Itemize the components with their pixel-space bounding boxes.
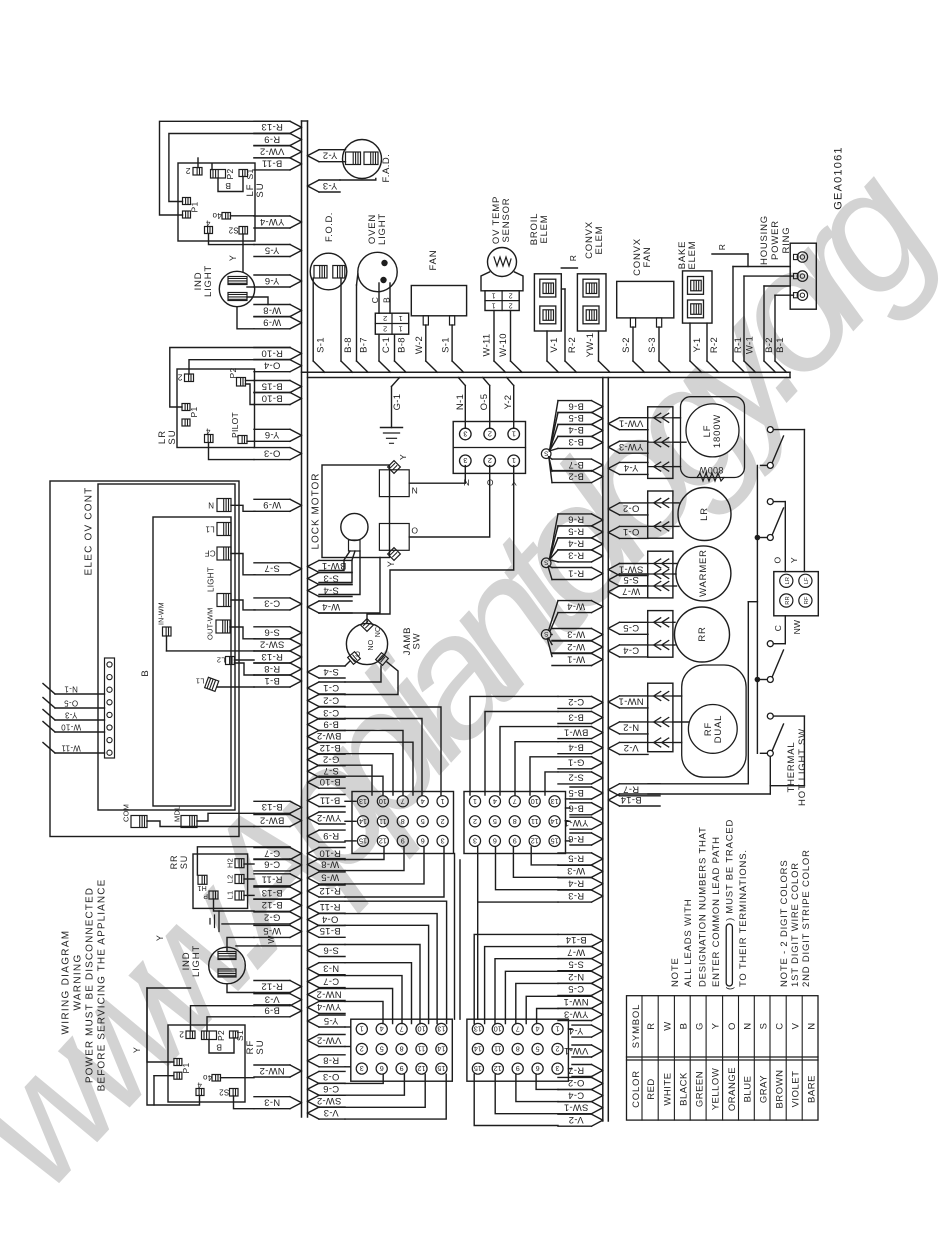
wire YW-3 route bbox=[537, 1009, 558, 1024]
svg-text:R-5: R-5 bbox=[568, 526, 584, 537]
flag SW-2 bbox=[254, 638, 290, 640]
svg-text:W-5: W-5 bbox=[263, 925, 281, 936]
flag VW-1 br bbox=[572, 1044, 592, 1046]
wire C-2 route bbox=[470, 696, 558, 795]
svg-text:S: S bbox=[544, 450, 549, 457]
flag G-1 mr bbox=[558, 756, 592, 758]
terminal P1 of LR SU bbox=[182, 404, 190, 411]
wire N-1 from bus bbox=[458, 378, 465, 386]
svg-text:B-13: B-13 bbox=[261, 887, 282, 898]
flag B-15 bbox=[254, 380, 290, 382]
connector block bottom-right bbox=[467, 1019, 569, 1081]
svg-text:LIGHT: LIGHT bbox=[377, 213, 388, 245]
connector strip 8 circles bbox=[105, 658, 115, 758]
terminal 2 of RF SU bbox=[186, 1031, 195, 1039]
wire Y rail lower to B-14 junction bbox=[773, 715, 804, 717]
terminal 4o of LF SU bbox=[222, 213, 231, 220]
wire Y loop route bbox=[147, 988, 191, 1062]
svg-text:V-3: V-3 bbox=[264, 994, 279, 1005]
svg-text:V-3: V-3 bbox=[323, 1107, 338, 1118]
svg-text:SU: SU bbox=[255, 182, 266, 197]
svg-text:S-2: S-2 bbox=[568, 772, 584, 783]
flag S-7 mid bbox=[319, 764, 345, 766]
svg-text:L2: L2 bbox=[226, 875, 235, 884]
wire VW-1 into block bbox=[568, 1048, 572, 1050]
svg-text:F.O.D.: F.O.D. bbox=[324, 212, 335, 242]
wire V-3 to terminal 2 bbox=[191, 1006, 255, 1031]
svg-text:VW-1: VW-1 bbox=[564, 1045, 589, 1056]
svg-text:8: 8 bbox=[401, 817, 405, 826]
wire S-2 route bbox=[545, 772, 558, 795]
terminal COM bbox=[131, 816, 147, 828]
svg-text:L1: L1 bbox=[196, 677, 205, 686]
svg-text:R-13: R-13 bbox=[261, 651, 283, 662]
wire W-8 from IND LIGHT bbox=[247, 297, 268, 305]
wire C from OVEN LIGHT to block bbox=[378, 283, 380, 313]
wire S-1 from FAN bbox=[451, 325, 453, 361]
svg-text:BARE: BARE bbox=[806, 1075, 817, 1103]
flag YW-4 bbox=[254, 215, 290, 217]
splice S of W group bbox=[541, 630, 551, 640]
wire L1 to B-1 flag bbox=[217, 686, 254, 688]
svg-text:1: 1 bbox=[491, 301, 495, 308]
wire B-12 route bbox=[345, 742, 413, 795]
wire BW-2 route pin 7 bbox=[345, 730, 403, 795]
connector box LR bbox=[648, 491, 673, 538]
svg-text:R-10: R-10 bbox=[319, 847, 341, 858]
flag B-10 mid bbox=[319, 775, 345, 777]
svg-text:N-1: N-1 bbox=[64, 684, 78, 693]
flag YW-2 mid bbox=[319, 811, 345, 813]
wire BW-1 route bbox=[500, 727, 558, 795]
indicator box NW bbox=[774, 572, 819, 616]
motor CONVX FAN box bbox=[617, 281, 674, 318]
terminal 4o of RF SU bbox=[212, 1075, 221, 1082]
svg-text:P1: P1 bbox=[189, 407, 199, 418]
svg-text:B-2: B-2 bbox=[568, 470, 584, 481]
svg-text:Y-2: Y-2 bbox=[503, 395, 514, 410]
svg-text:C-4: C-4 bbox=[568, 1089, 584, 1100]
flag R-4 bbox=[558, 537, 592, 539]
svg-text:ELEM: ELEM bbox=[687, 240, 698, 269]
flag R-3 mr bbox=[558, 889, 592, 891]
svg-text:IN-WM: IN-WM bbox=[158, 602, 165, 625]
disc F.A.D. bbox=[343, 140, 382, 179]
svg-text:W-10: W-10 bbox=[498, 333, 509, 357]
connector box WARMER bbox=[648, 551, 673, 598]
svg-text:BW-1: BW-1 bbox=[322, 560, 347, 571]
svg-text:B-10: B-10 bbox=[261, 392, 282, 403]
wire N-3 route bbox=[345, 963, 412, 1024]
svg-text:13: 13 bbox=[474, 1025, 482, 1034]
svg-text:HOT LIGHT SW: HOT LIGHT SW bbox=[797, 728, 808, 806]
wire R-12 from IND LIGHT bbox=[227, 984, 254, 993]
svg-text:W-2: W-2 bbox=[414, 336, 425, 354]
wire NW-2 from 4o bbox=[221, 1077, 255, 1079]
svg-text:C-4: C-4 bbox=[623, 645, 639, 656]
svg-text:P2: P2 bbox=[225, 169, 235, 180]
svg-text:BW-2: BW-2 bbox=[260, 814, 285, 825]
terminal S2 of RF SU bbox=[230, 1089, 239, 1097]
wire P2 to B-15 B-10 flags bbox=[246, 380, 255, 382]
flag W-3 w bbox=[552, 628, 592, 630]
svg-text:G-1: G-1 bbox=[568, 757, 585, 768]
wire Y-4 into block bbox=[568, 1028, 572, 1030]
svg-text:BLUE: BLUE bbox=[743, 1076, 754, 1103]
flag N-3 bl bbox=[319, 962, 345, 964]
flag N-2 rf bbox=[620, 721, 649, 723]
flag R-4 mr bbox=[558, 877, 592, 879]
svg-text:S-7: S-7 bbox=[323, 765, 339, 776]
control inner box bbox=[98, 484, 235, 810]
wire R-12 under-route bbox=[345, 847, 444, 897]
svg-text:N-2: N-2 bbox=[623, 722, 639, 733]
connector box LF bbox=[648, 407, 673, 479]
wire W-8 under-route bbox=[345, 847, 404, 871]
svg-text:NW-2: NW-2 bbox=[259, 1065, 284, 1076]
svg-text:RR: RR bbox=[697, 626, 708, 641]
svg-text:2: 2 bbox=[556, 1045, 560, 1054]
svg-text:9: 9 bbox=[513, 837, 517, 846]
wire channel right bus bbox=[602, 378, 604, 1122]
svg-text:8: 8 bbox=[400, 1045, 404, 1054]
wire 4 to S2 junction bbox=[209, 234, 244, 245]
wire NW-2 route bbox=[345, 989, 393, 1024]
wire Y-5 into block bbox=[345, 1026, 351, 1028]
wire R-11 route bbox=[345, 901, 447, 1023]
svg-text:R-12: R-12 bbox=[319, 885, 341, 896]
flag S-4 bbox=[319, 584, 352, 586]
wire C-1 from block bbox=[378, 334, 380, 361]
svg-text:WARMER: WARMER bbox=[698, 549, 709, 597]
svg-text:BEFORE SERVICING THE APPLIANCE: BEFORE SERVICING THE APPLIANCE bbox=[96, 879, 107, 1092]
wire O-5 from bus bbox=[483, 378, 490, 386]
svg-text:SW-1: SW-1 bbox=[619, 563, 644, 574]
svg-text:R: R bbox=[717, 244, 727, 250]
svg-text:4: 4 bbox=[493, 797, 497, 806]
svg-text:P1: P1 bbox=[181, 1063, 191, 1074]
flag B-5 mr bbox=[570, 786, 592, 788]
flag C-2 jamb bbox=[319, 694, 345, 696]
svg-text:S-5: S-5 bbox=[568, 959, 584, 970]
svg-text:H1: H1 bbox=[197, 884, 207, 891]
svg-text:10: 10 bbox=[379, 797, 387, 806]
svg-text:O: O bbox=[772, 556, 782, 563]
flag S-4 jamb bbox=[319, 665, 345, 667]
flag R-7 br bbox=[572, 1064, 592, 1066]
svg-text:W-3: W-3 bbox=[567, 628, 585, 639]
wire W-10 from sensor bbox=[510, 311, 512, 362]
flag R-6 bbox=[558, 513, 592, 515]
wire O-2 under bbox=[536, 1074, 558, 1089]
wires gap verticals between blocks bbox=[454, 854, 456, 1020]
flag R-10 mid bbox=[319, 847, 345, 849]
svg-text:W-7: W-7 bbox=[567, 946, 585, 957]
svg-text:O-3: O-3 bbox=[323, 1071, 340, 1082]
svg-text:R-11: R-11 bbox=[319, 901, 340, 912]
wire C-6 under bbox=[345, 1074, 404, 1095]
svg-text:PILOT: PILOT bbox=[230, 412, 240, 438]
svg-text:10: 10 bbox=[494, 1025, 502, 1034]
svg-text:R: R bbox=[646, 1022, 657, 1029]
flag W-9 elec bbox=[254, 498, 290, 500]
svg-text:B-7: B-7 bbox=[359, 337, 370, 353]
svg-text:S-4: S-4 bbox=[323, 666, 339, 677]
svg-text:BW-1: BW-1 bbox=[564, 726, 589, 737]
wire G-2 route bbox=[345, 754, 393, 795]
terminal P of RR SU bbox=[209, 891, 218, 899]
svg-text:14: 14 bbox=[474, 1045, 482, 1054]
svg-text:O-4: O-4 bbox=[322, 913, 339, 924]
svg-text:ELEM: ELEM bbox=[539, 214, 550, 243]
indicator light IND LIGHT bbox=[219, 271, 254, 306]
terminal MDL bbox=[181, 816, 197, 828]
wire C-3 route to mid-left block pin 1 bbox=[345, 707, 441, 795]
svg-text:3: 3 bbox=[463, 456, 467, 465]
flag W-8 bbox=[254, 304, 290, 306]
svg-text:S-6: S-6 bbox=[264, 627, 280, 638]
wire lock motor leads bbox=[319, 551, 350, 570]
element RF DUAL burner bbox=[682, 665, 746, 777]
wire NW-1 route bbox=[526, 996, 558, 1023]
wire W from IND LIGHT bbox=[236, 945, 302, 947]
svg-text:YW-2: YW-2 bbox=[317, 812, 342, 823]
svg-text:S-5: S-5 bbox=[623, 574, 639, 585]
svg-text:C-7: C-7 bbox=[323, 975, 339, 986]
svg-text:Y-2: Y-2 bbox=[323, 150, 338, 161]
connector P2 of LF SU bbox=[211, 170, 226, 179]
control ELEC OV CONT outer box bbox=[50, 481, 239, 837]
svg-text:10: 10 bbox=[418, 1025, 426, 1034]
indicator light IND LIGHT lower bbox=[209, 947, 246, 984]
svg-text:R-12: R-12 bbox=[261, 980, 283, 991]
flag NW-2 bbox=[254, 1064, 290, 1066]
flag C-1 jamb bbox=[319, 681, 345, 683]
svg-text:SW-2: SW-2 bbox=[260, 639, 285, 650]
svg-text:W-9: W-9 bbox=[263, 499, 281, 510]
svg-text:O-4: O-4 bbox=[264, 360, 281, 371]
svg-text:2: 2 bbox=[441, 817, 445, 826]
svg-text:O-2: O-2 bbox=[568, 1077, 585, 1088]
disc F.O.D. bbox=[310, 253, 347, 290]
flag VW-1 lf bbox=[620, 417, 649, 419]
svg-text:W-7: W-7 bbox=[622, 586, 640, 597]
terminal L2 bbox=[226, 657, 235, 665]
svg-text:3: 3 bbox=[463, 429, 467, 438]
svg-text:P1: P1 bbox=[189, 202, 199, 213]
svg-text:W-10: W-10 bbox=[61, 722, 81, 731]
motor FAN box bbox=[411, 286, 466, 316]
svg-text:9: 9 bbox=[516, 1064, 520, 1073]
flag B-11 bbox=[254, 157, 290, 159]
wire C-3 from LIGHT bbox=[231, 600, 255, 610]
svg-text:N: N bbox=[743, 1022, 754, 1029]
svg-text:SU: SU bbox=[255, 1039, 266, 1054]
svg-text:Y-4: Y-4 bbox=[624, 462, 639, 473]
wire N-3 from S2 bbox=[234, 1096, 255, 1109]
svg-text:11: 11 bbox=[494, 1045, 501, 1054]
svg-text:W-11: W-11 bbox=[61, 743, 81, 752]
svg-text:B-8: B-8 bbox=[397, 337, 408, 353]
wire B-2 to housing bbox=[763, 286, 765, 361]
svg-text:15: 15 bbox=[359, 837, 367, 846]
wire R-5 under bbox=[531, 847, 558, 865]
svg-text:ALL LEADS WITH: ALL LEADS WITH bbox=[683, 899, 694, 987]
svg-text:2ND DIGIT STRIPE COLOR: 2ND DIGIT STRIPE COLOR bbox=[801, 849, 812, 987]
lock motor terminal N bbox=[379, 470, 409, 497]
flag S-5 br bbox=[558, 958, 592, 960]
svg-text:COM: COM bbox=[122, 804, 131, 822]
svg-text:ORANGE: ORANGE bbox=[727, 1067, 738, 1111]
svg-text:1: 1 bbox=[398, 324, 402, 333]
connector block bottom-left bbox=[351, 1019, 453, 1081]
svg-text:R-3: R-3 bbox=[568, 890, 584, 901]
svg-text:NOTE - 2 DIGIT COLORS: NOTE - 2 DIGIT COLORS bbox=[779, 860, 790, 987]
svg-text:P2: P2 bbox=[216, 1030, 226, 1041]
flag R-1 bbox=[552, 567, 592, 569]
svg-text:2: 2 bbox=[360, 1045, 364, 1054]
wire B-3 route bbox=[485, 712, 558, 796]
wires LR box to burner bbox=[673, 502, 679, 504]
svg-text:R-2: R-2 bbox=[709, 337, 720, 353]
element CONVX ELEM bbox=[577, 274, 606, 331]
wire W-2 from FAN bbox=[425, 325, 427, 361]
flag R-13 lower bbox=[254, 650, 290, 652]
wire H2 to C-6 bbox=[244, 863, 254, 865]
flag B-9 bbox=[254, 1004, 290, 1006]
wire C-1 to jamb bbox=[345, 666, 381, 682]
wire R between elements bbox=[561, 267, 577, 269]
svg-text:Y: Y bbox=[228, 255, 238, 261]
wire B-14 to switch bbox=[648, 793, 770, 795]
svg-text:Y: Y bbox=[398, 454, 408, 460]
svg-text:BLACK: BLACK bbox=[678, 1072, 689, 1106]
svg-text:B-7: B-7 bbox=[568, 459, 584, 470]
svg-text:LIGHT: LIGHT bbox=[203, 265, 214, 297]
svg-text:C: C bbox=[354, 650, 360, 659]
svg-text:O-5: O-5 bbox=[64, 698, 78, 707]
svg-text:B-11: B-11 bbox=[320, 794, 341, 805]
flag V-3 bl bbox=[319, 1106, 345, 1108]
svg-text:RING: RING bbox=[781, 227, 792, 254]
svg-text:THERMAL: THERMAL bbox=[786, 742, 797, 793]
svg-text:11: 11 bbox=[418, 1045, 425, 1054]
flag O-3 bbox=[254, 447, 290, 449]
flag R-12 mid bbox=[319, 884, 345, 886]
wire B-14 route bbox=[474, 934, 558, 1023]
wire S2 to IND LIGHT bbox=[242, 234, 244, 272]
svg-text:LF: LF bbox=[804, 577, 810, 584]
switch JAMB SW bbox=[346, 623, 387, 664]
svg-text:9: 9 bbox=[401, 837, 405, 846]
svg-text:15: 15 bbox=[437, 1064, 445, 1073]
svg-text:LIGHT: LIGHT bbox=[191, 945, 202, 977]
flag N-2 br bbox=[558, 970, 592, 972]
svg-text:C-6: C-6 bbox=[323, 1083, 339, 1094]
svg-text:S-1: S-1 bbox=[440, 337, 451, 353]
flag Y-2 to F.A.D. bbox=[319, 149, 346, 151]
svg-text:FAN: FAN bbox=[642, 247, 653, 268]
wire L1 to B-13 bbox=[244, 894, 254, 896]
svg-text:VW-1: VW-1 bbox=[619, 418, 644, 429]
wire B-15 route bbox=[345, 925, 429, 1023]
svg-text:N: N bbox=[463, 477, 469, 487]
svg-text:C-5: C-5 bbox=[568, 983, 584, 994]
wire G-1 from bus bbox=[392, 378, 400, 387]
terminal P1 of LF SU bbox=[183, 198, 191, 205]
wire VW-2 route to terminal 2 bbox=[197, 158, 199, 168]
flag O-4 bl bbox=[319, 913, 345, 915]
terminal L1 of RR SU bbox=[235, 891, 244, 900]
wire 4 to O-3 flag bbox=[209, 443, 255, 460]
wire S-6 from OUT-WM bbox=[230, 627, 255, 639]
wire R-6 into block bbox=[566, 840, 571, 842]
flag Y-6 pilot bbox=[254, 428, 290, 430]
wire Y-3 to F.A.D. bbox=[340, 179, 376, 181]
wire R-2 from BROIL bbox=[561, 288, 565, 290]
wire R-2 from BAKE bbox=[706, 323, 708, 361]
element BAKE ELEM bbox=[683, 271, 713, 323]
svg-text:N-3: N-3 bbox=[264, 1096, 280, 1107]
wire pilot to Y-6 bbox=[247, 440, 254, 442]
svg-text:N-2: N-2 bbox=[568, 971, 584, 982]
wire R-3 under bbox=[478, 847, 558, 902]
wire YW-2 into block bbox=[345, 820, 356, 822]
svg-text:V-1: V-1 bbox=[549, 337, 560, 352]
flag BW-2 bbox=[254, 814, 290, 816]
wire P to B-12 bbox=[214, 899, 255, 911]
flag R-9 mid bbox=[319, 829, 345, 831]
svg-text:P2: P2 bbox=[228, 368, 238, 379]
flag C-5 rr bbox=[620, 621, 649, 623]
svg-text:GRAY: GRAY bbox=[758, 1075, 769, 1103]
flag B-12 bbox=[254, 898, 290, 900]
wires WARMER box to burner bbox=[673, 563, 677, 565]
svg-text:WHITE: WHITE bbox=[662, 1072, 673, 1105]
wire C line bbox=[773, 643, 785, 645]
flag R-5 mr bbox=[558, 852, 592, 854]
svg-text:L1: L1 bbox=[226, 891, 235, 900]
wire MDL to B-13 flag bbox=[197, 813, 254, 821]
flag R-13 bbox=[254, 120, 290, 122]
svg-text:C-3: C-3 bbox=[264, 598, 280, 609]
flag R-8 bbox=[254, 662, 290, 664]
svg-text:W-5: W-5 bbox=[321, 872, 339, 883]
terminal N of ELEC OV CONT bbox=[217, 499, 231, 512]
svg-text:1: 1 bbox=[441, 797, 445, 806]
svg-text:SENSOR: SENSOR bbox=[501, 198, 512, 243]
wires LF box to burner bbox=[673, 417, 681, 419]
svg-text:5: 5 bbox=[421, 817, 425, 826]
flag BW-1 bbox=[319, 559, 352, 561]
wire YW-4 route bbox=[345, 1001, 383, 1023]
svg-text:R-1: R-1 bbox=[733, 337, 744, 353]
svg-text:C-6: C-6 bbox=[264, 859, 280, 870]
flag Y-4 lf bbox=[620, 461, 649, 463]
terminal H2 of RR SU bbox=[235, 859, 244, 868]
flag O-3 bl bbox=[319, 1070, 345, 1072]
svg-text:B-15: B-15 bbox=[319, 925, 340, 936]
svg-text:R: R bbox=[568, 255, 578, 261]
terminal 2 of LF SU bbox=[193, 168, 202, 176]
flag B-14 sw bbox=[620, 793, 661, 795]
flag R-7 sw bbox=[620, 783, 661, 785]
element LF 1800W burner bbox=[681, 397, 745, 478]
wire W-3 under bbox=[513, 847, 558, 877]
flag Y-4 br bbox=[572, 1024, 592, 1026]
flag W-7 w bbox=[620, 585, 649, 587]
svg-text:B-9: B-9 bbox=[264, 1005, 280, 1016]
